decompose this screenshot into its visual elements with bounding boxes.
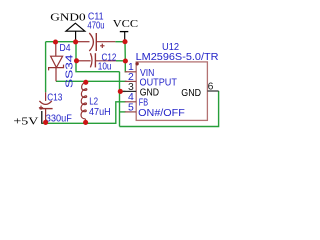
- wire GND vertical at IC: [119, 72, 121, 127]
- wire GND return from pin6: [120, 91, 219, 127]
- wire +5V rail and FB riser: [42, 102, 126, 124]
- wire GND spur to pin3: [120, 90, 126, 92]
- svg-text:10u: 10u: [98, 62, 112, 73]
- svg-text:VCC: VCC: [113, 18, 138, 30]
- wire switch node to pin2: [56, 80, 127, 82]
- svg-text:D4: D4: [60, 43, 71, 54]
- wire GND top horizontal: [46, 41, 76, 43]
- wire GND spur to pin5: [120, 111, 126, 113]
- node junction pin3: [118, 89, 123, 94]
- ground symbol GND0: [50, 12, 86, 42]
- node junction D4 top: [53, 39, 58, 44]
- pin 1 VIN: [125, 62, 155, 79]
- svg-text:ON#/OFF: ON#/OFF: [138, 108, 185, 119]
- diode D4 SS34 schottky: [49, 42, 76, 88]
- wire C12 right gap: [116, 60, 126, 62]
- pin 4 FB: [125, 92, 149, 109]
- node junction C12 right: [123, 58, 128, 63]
- svg-text:GND: GND: [181, 88, 201, 99]
- wire VIN jog to pin1: [125, 61, 126, 72]
- svg-text:47uH: 47uH: [89, 107, 111, 118]
- svg-text:6: 6: [208, 82, 214, 93]
- inductor L2 47uH: [81, 82, 111, 122]
- capacitor C11 470u: [76, 11, 116, 51]
- svg-text:L2: L2: [89, 96, 98, 107]
- svg-text:LM2596S-5.0/TR: LM2596S-5.0/TR: [136, 52, 219, 63]
- svg-text:+5V: +5V: [13, 116, 38, 128]
- svg-text:5: 5: [128, 102, 134, 113]
- node junction L2 top: [83, 80, 88, 85]
- node junction L2 bottom: [83, 120, 88, 125]
- capacitor C12 10u: [77, 53, 117, 73]
- svg-text:SS34: SS34: [65, 54, 76, 88]
- pin 5 ON#/OFF: [125, 102, 185, 119]
- wire VCC down to C12 right: [124, 42, 126, 61]
- pin 6 GND right: [181, 82, 218, 99]
- power symbol +5V: [13, 111, 41, 128]
- wire GND via C12 left: [76, 42, 120, 72]
- svg-text:C13: C13: [47, 92, 63, 103]
- node junction VCC: [122, 39, 127, 44]
- pin 2 OUTPUT: [125, 72, 177, 89]
- svg-text:GND0: GND0: [50, 12, 86, 24]
- wire C11 right gap: [115, 41, 125, 43]
- power symbol VCC: [113, 18, 138, 42]
- wire GND left vertical: [45, 42, 47, 93]
- svg-text:330uF: 330uF: [46, 114, 72, 125]
- capacitor C13 330uF: [39, 92, 72, 124]
- node junction GND stem: [73, 39, 78, 44]
- op-amp U12 LM2596 body: [135, 42, 218, 120]
- node junction C13 bottom: [43, 120, 48, 125]
- svg-text:470u: 470u: [87, 21, 104, 32]
- pin 3 GND: [122, 82, 159, 99]
- node junction C12 left: [74, 58, 79, 63]
